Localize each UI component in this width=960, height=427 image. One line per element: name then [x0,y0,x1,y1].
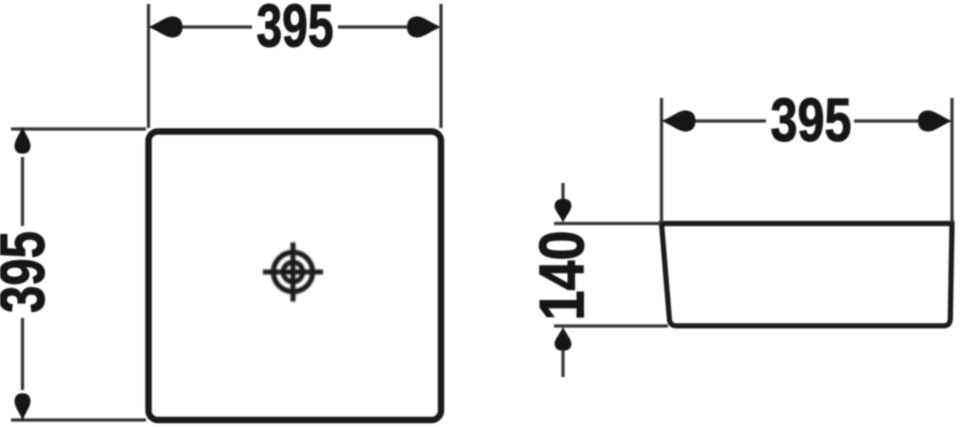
top dimension arrow right [407,16,441,37]
top dimension: extension line right [439,4,442,128]
svg-text:395: 395 [771,86,852,154]
height dimension: extension line bottom [554,324,668,327]
drain crosshair horizontal [263,270,323,275]
left dimension arrow down [14,393,30,420]
svg-text:395: 395 [257,0,334,60]
top dimension line right segment [338,25,412,28]
svg-text:140: 140 [528,231,598,321]
top dimension arrow right [918,110,952,131]
left dimension line lower segment [21,318,24,390]
drain crosshair vertical [291,243,296,302]
height dimension arrow down (above top ext line) [555,199,572,223]
left dimension: extension line top [11,127,146,130]
height dimension line lower segment [561,350,564,377]
drain symbol inner circle [283,262,303,282]
height dimension line upper segment [561,183,564,200]
left dimension line upper segment [21,157,24,226]
height dimension: extension line top [554,222,660,225]
top dimension line left segment [691,119,766,122]
svg-text:395: 395 [0,231,58,313]
left dimension arrow up [14,127,30,154]
drain symbol outer circle [273,252,312,291]
basin outline square [149,132,442,421]
top dimension: extension line right [950,98,953,223]
height dimension arrow up (below bottom ext line) [555,327,572,351]
top dimension: extension line left [147,4,150,128]
top dimension arrow left [662,110,696,131]
top dimension line right segment [854,119,924,122]
top dimension arrow left [149,16,183,37]
basin side profile [662,224,953,326]
top dimension line left segment [178,25,252,28]
left dimension: extension line bottom [11,418,146,421]
top dimension: extension line left [660,98,663,223]
